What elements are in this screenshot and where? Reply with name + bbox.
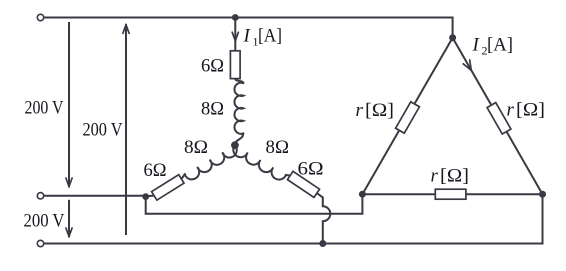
svg-text:200 V: 200 V: [83, 120, 123, 141]
svg-text:[Ω]: [Ω]: [365, 100, 394, 121]
svg-text:r: r: [356, 100, 364, 121]
svg-text:[Ω]: [Ω]: [516, 100, 545, 121]
svg-text:6Ω: 6Ω: [144, 160, 167, 181]
svg-text:8Ω: 8Ω: [266, 137, 290, 158]
svg-text:6Ω: 6Ω: [298, 159, 324, 180]
svg-text:6Ω: 6Ω: [201, 56, 224, 77]
svg-text:r: r: [507, 100, 515, 121]
svg-text:200 V: 200 V: [25, 97, 64, 118]
svg-text:8Ω: 8Ω: [201, 99, 224, 120]
svg-text:[Ω]: [Ω]: [440, 166, 469, 187]
svg-text:r: r: [431, 166, 439, 187]
svg-text:200 V: 200 V: [24, 210, 65, 231]
svg-text:[A]: [A]: [487, 35, 513, 56]
svg-text:8Ω: 8Ω: [184, 137, 208, 158]
svg-text:[A]: [A]: [258, 26, 282, 47]
